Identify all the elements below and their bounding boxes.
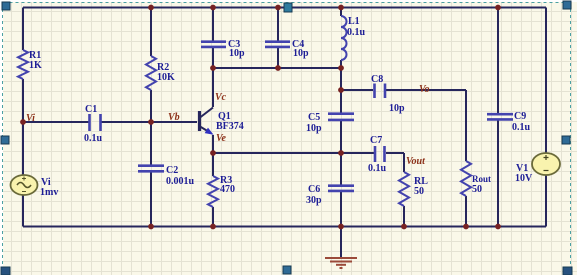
- capacitor C8: [371, 74, 405, 114]
- svg-text:10p: 10p: [293, 48, 309, 59]
- junction top rail at C9: [495, 5, 501, 11]
- svg-text:C5: C5: [308, 112, 320, 123]
- capacitor C3: [201, 39, 245, 59]
- wire Rout branch: [465, 90, 467, 227]
- junction node Vi: [20, 119, 26, 125]
- resistor Rout: [461, 161, 491, 196]
- wire ground stem: [340, 227, 342, 258]
- svg-text:10p: 10p: [229, 48, 245, 59]
- svg-text:0.001u: 0.001u: [166, 176, 195, 187]
- wire collector column: [212, 68, 214, 107]
- resistor RL: [399, 172, 428, 206]
- node Vb: [168, 112, 180, 123]
- capacitor C4: [265, 39, 309, 59]
- svg-text:C6: C6: [308, 184, 320, 195]
- selection handle right-middle: [562, 136, 570, 144]
- svg-text:L1: L1: [348, 16, 360, 27]
- wire top rail: [23, 7, 546, 9]
- source Vi (1mv): [11, 175, 59, 198]
- svg-text:10V: 10V: [515, 173, 533, 184]
- capacitor C9: [487, 111, 531, 133]
- wire Ve rail y153: [213, 152, 404, 154]
- svg-text:1K: 1K: [29, 60, 42, 71]
- svg-text:10K: 10K: [157, 72, 175, 83]
- svg-text:0.1u: 0.1u: [512, 122, 531, 133]
- junction Vc rail at C3: [210, 65, 216, 71]
- inductor L1: [341, 16, 366, 60]
- wire Vc rail y68: [213, 67, 341, 69]
- junction bottom rail at RL: [401, 224, 407, 230]
- svg-text:470: 470: [220, 184, 235, 195]
- junction bottom rail at Rout: [463, 224, 469, 230]
- wire bottom rail: [23, 226, 546, 228]
- junction bottom rail at C2: [148, 224, 154, 230]
- svg-text:50: 50: [472, 184, 482, 195]
- junction top rail at R2: [148, 5, 154, 11]
- svg-text:Vi: Vi: [26, 113, 35, 124]
- junction Ve rail at C5: [338, 150, 344, 156]
- selection handle bottom-middle: [283, 266, 291, 274]
- wire L1/C5/C6 column: [340, 8, 342, 227]
- svg-text:Vc: Vc: [215, 92, 227, 103]
- node Vout: [406, 156, 426, 167]
- wire C4 column: [277, 8, 279, 69]
- junction bottom rail at R3: [210, 224, 216, 230]
- junction Vo tap: [338, 87, 344, 93]
- junction top rail at L1: [338, 5, 344, 11]
- node Vc: [215, 92, 227, 103]
- svg-text:BF374: BF374: [216, 121, 244, 132]
- svg-text:0.1u: 0.1u: [347, 27, 366, 38]
- junction bottom rail at C9: [495, 224, 501, 230]
- svg-text:30p: 30p: [306, 195, 322, 206]
- svg-text:C2: C2: [166, 165, 178, 176]
- wire C9 column: [497, 8, 499, 227]
- capacitor C5: [306, 112, 354, 134]
- node Vo: [419, 84, 430, 95]
- svg-text:Vo: Vo: [419, 84, 430, 95]
- svg-text:1mv: 1mv: [40, 187, 58, 198]
- junction bottom rail at ground: [338, 224, 344, 230]
- capacitor C1: [84, 104, 103, 144]
- wire R2/C2 column: [150, 8, 152, 227]
- resistor R2: [146, 56, 175, 90]
- junction Vc rail at C4: [275, 65, 281, 71]
- svg-text:C7: C7: [370, 135, 382, 146]
- svg-text:C8: C8: [371, 74, 383, 85]
- wire Vo rail y90: [341, 89, 466, 91]
- svg-text:10p: 10p: [306, 123, 322, 134]
- wire left column (R1/Vi branch): [22, 8, 24, 227]
- junction node Vb: [148, 119, 154, 125]
- node Vi: [26, 113, 35, 124]
- svg-text:C1: C1: [85, 104, 97, 115]
- selection handle top-left: [2, 2, 10, 10]
- resistor R3: [208, 175, 235, 207]
- transistor Q1: [200, 108, 244, 138]
- svg-text:0.1u: 0.1u: [368, 163, 387, 174]
- wire R3 column: [212, 153, 214, 227]
- svg-text:Ve: Ve: [216, 133, 227, 144]
- svg-text:C9: C9: [514, 111, 526, 122]
- junction top rail at C4: [275, 5, 281, 11]
- wire emitter column: [212, 135, 214, 153]
- selection handle bottom-left: [1, 267, 10, 275]
- capacitor C6: [306, 184, 354, 206]
- svg-text:Vb: Vb: [168, 112, 180, 123]
- wire input signal Vi to base: [23, 121, 197, 123]
- svg-text:0.1u: 0.1u: [84, 133, 103, 144]
- selection handle left-middle: [1, 136, 9, 144]
- svg-text:Rout: Rout: [472, 174, 491, 184]
- capacitor C7: [368, 135, 387, 174]
- selection handle top-right: [563, 1, 571, 9]
- junction top rail at C3: [210, 5, 216, 11]
- resistor R1: [18, 50, 42, 79]
- wire right column (V1 branch): [545, 8, 547, 227]
- ground: [325, 258, 357, 268]
- svg-text:Vout: Vout: [406, 156, 426, 167]
- node Ve: [216, 133, 227, 144]
- svg-text:10p: 10p: [389, 103, 405, 114]
- selection handle top-middle: [284, 3, 292, 12]
- selection handle bottom-right: [563, 267, 572, 275]
- source V1 (10V): [515, 153, 560, 184]
- junction Vc rail at L1: [338, 65, 344, 71]
- wire RL branch: [403, 153, 405, 227]
- svg-text:50: 50: [414, 186, 424, 197]
- wire C3 column: [212, 8, 214, 69]
- junction node Ve: [210, 150, 216, 156]
- capacitor C2: [138, 165, 195, 187]
